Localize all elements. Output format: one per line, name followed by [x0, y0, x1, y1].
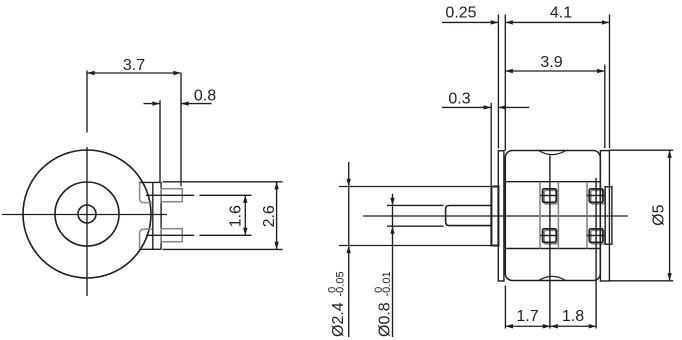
svg-text:Ø2.4: Ø2.4	[330, 302, 347, 337]
side view pin column 2 centerline	[595, 178, 597, 329]
extension line left of 0.8	[159, 100, 161, 182]
dimension 0.25 line	[442, 21, 498, 23]
extension lines for 2.6	[163, 181, 283, 183]
front view horizontal centerline	[2, 214, 167, 216]
side view pin square shadow top-right (gray)	[591, 190, 605, 204]
extension lines above side view	[497, 15, 499, 149]
side view body	[505, 151, 600, 281]
dimension 2.6 line	[276, 182, 278, 250]
dimension Ø0.8 label with tolerance	[373, 271, 394, 337]
svg-text:Ø5: Ø5	[651, 204, 668, 225]
side view left mounting flange	[498, 151, 504, 281]
side view pin square shadow bottom-right (gray)	[591, 230, 605, 244]
dimension 1.7 and 1.8 line	[505, 325, 596, 327]
svg-text:-0.05: -0.05	[334, 271, 346, 296]
svg-text:0.25: 0.25	[445, 5, 476, 22]
extension lines for Ø2.4	[339, 186, 491, 188]
svg-text:3.7: 3.7	[123, 57, 145, 74]
side view bottom seam arc	[539, 276, 566, 280]
front view center shaft hole	[78, 205, 96, 223]
extension line right of 3.7 / 0.8	[180, 73, 182, 186]
svg-text:3.9: 3.9	[540, 54, 562, 71]
side view pin column 2 strip (gray)	[586, 182, 588, 249]
svg-text:Ø0.8: Ø0.8	[377, 302, 394, 337]
side view horizontal centerline	[363, 215, 628, 217]
side view pin square top-right	[589, 189, 603, 203]
side view pin column 1 centerline	[549, 156, 551, 329]
side view pin crosshair horizontals	[540, 195, 558, 197]
dimension Ø2.4 label with tolerance	[327, 271, 348, 337]
dimension 0.3 lines	[442, 106, 491, 108]
front view terminal block	[152, 182, 154, 249]
dimension 0.8 lines	[144, 103, 161, 105]
side view pin square shadow top-left (gray)	[544, 190, 558, 204]
front view top mounting tab (gray)	[140, 182, 153, 202]
dimension Ø5 line	[669, 150, 671, 281]
side view pin square bottom-left	[543, 229, 557, 243]
side view bushing boss Ø2.4	[491, 187, 498, 246]
svg-text:1.7: 1.7	[516, 308, 538, 325]
svg-text:2.6: 2.6	[261, 205, 278, 227]
side view pin column 1 strip (gray)	[539, 182, 541, 249]
side view right mounting flange	[600, 151, 609, 281]
svg-text:0.8: 0.8	[194, 87, 216, 104]
dimension 4.1 line	[505, 21, 609, 23]
dimension 3.7 line	[87, 72, 181, 74]
svg-text:1.8: 1.8	[562, 308, 584, 325]
side view pin square shadow bottom-left (gray)	[544, 230, 558, 244]
extension line for 0.3 boss face	[490, 103, 492, 187]
front view middle circle	[55, 182, 119, 246]
front view upper terminal pin (gray)	[161, 189, 182, 202]
svg-text:1.6: 1.6	[228, 205, 245, 227]
dimension Ø2.4 line	[348, 162, 350, 337]
svg-text:-0.01: -0.01	[381, 271, 393, 296]
dimension 3.9 line	[505, 70, 605, 72]
front view lower terminal pin (gray)	[161, 229, 182, 242]
extension lines for Ø5	[609, 149, 673, 151]
dimension 2.6 label	[261, 205, 278, 227]
svg-text:4.1: 4.1	[550, 5, 572, 22]
svg-text:0.3: 0.3	[448, 91, 470, 108]
extension lines for 1.6 (pin centerlines)	[146, 194, 194, 196]
extension line below left flange	[504, 286, 506, 329]
dimension 1.6 label	[228, 205, 245, 227]
side view shaft collar section	[446, 206, 492, 226]
side view top seam arc	[539, 151, 566, 155]
dimension Ø0.8 line	[392, 194, 394, 337]
dimension Ø5 label	[651, 204, 668, 225]
side view terminal band lines	[505, 181, 600, 183]
side view pin square bottom-right	[589, 229, 603, 243]
side view rear terminal tab	[605, 187, 612, 245]
side view pin square top-left	[543, 189, 557, 203]
front view outer circle body Ø5	[23, 150, 151, 278]
dimension 1.6 line	[244, 195, 246, 235]
front view bottom mounting tab (gray)	[140, 229, 153, 249]
front view vertical centerline	[86, 71, 88, 133]
side view shaft Ø0.8 outline	[387, 204, 444, 206]
